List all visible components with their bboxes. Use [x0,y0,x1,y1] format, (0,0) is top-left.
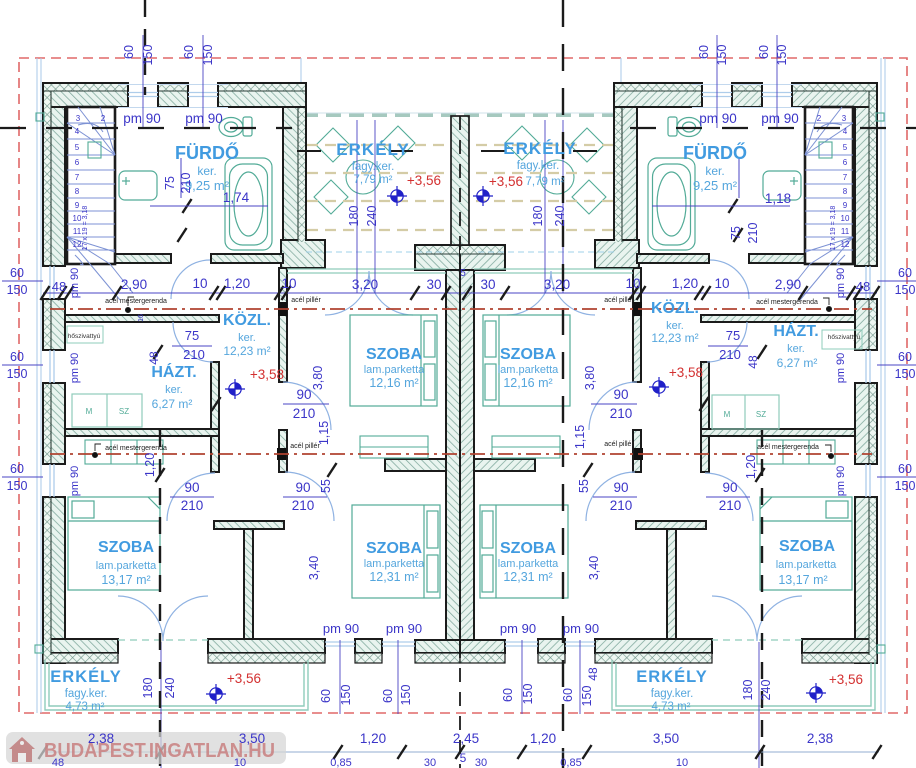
door dim vline bathroom [180,158,182,198]
balcony dim axis 180 [562,120,564,293]
svg-text:SZ: SZ [756,410,766,419]
window: bottom wall 1 [325,642,355,646]
wall: top exterior mid segment [158,83,188,107]
T-cap strip divider [416,253,460,255]
svg-text:3,40: 3,40 [307,556,321,580]
threshold dashes of lower balcony door [118,639,208,641]
svg-text:hőszivattyú: hőszivattyú [828,334,861,341]
wall: left exterior segment 2 [855,299,877,350]
svg-text:+3,56: +3,56 [227,671,261,686]
svg-text:3: 3 [76,114,81,123]
svg-text:10: 10 [281,276,296,291]
door arcs: lower balcony door [712,596,802,641]
washbasin [763,171,801,200]
door dim line bedroom SW [170,496,214,498]
svg-text:180: 180 [741,680,755,701]
section line horizontal through balconies [297,150,625,152]
svg-text:2,90: 2,90 [775,277,801,292]
svg-text:+3,56: +3,56 [829,672,863,687]
crosshatch strip left wall 1 [869,91,876,265]
svg-text:0,85: 0,85 [330,757,351,768]
svg-text:fagy.ker.: fagy.ker. [352,161,395,173]
svg-text:acél mestergerenda: acél mestergerenda [757,444,819,451]
svg-text:150: 150 [399,685,413,706]
drain pipe square top [876,113,884,121]
wall: bathroom south b [637,254,709,263]
svg-text:60: 60 [561,688,575,702]
svg-text:3,80: 3,80 [311,366,325,390]
wall: top exterior right segment to balcony [614,83,702,107]
section line vertical bottom-right [761,430,763,768]
svg-text:90: 90 [296,387,311,402]
dim tick door [153,345,162,359]
door arc: lower-left bedroom [167,473,215,521]
svg-text:60: 60 [898,350,912,364]
svg-text:4,73 m²: 4,73 m² [652,701,691,713]
svg-text:4,73 m²: 4,73 m² [66,701,105,713]
svg-text:150: 150 [775,45,789,66]
beam leader upper-left [125,297,134,313]
svg-text:90: 90 [184,480,199,495]
svg-text:fagy.ker.: fagy.ker. [65,688,108,700]
svg-text:pm 90: pm 90 [123,111,161,126]
staircase bottom winders [787,237,853,300]
window: left wall 3 [50,464,54,497]
wall: party wall top T-cap half [415,245,460,270]
svg-text:0,85: 0,85 [560,757,581,768]
wall: left exterior segment 3 [43,383,65,464]
dim line 1,18 [652,205,790,207]
crosshatch strip top wall b [159,84,187,91]
left edge dim line 1 [877,280,916,282]
svg-text:3,20: 3,20 [544,277,570,292]
svg-text:210: 210 [610,498,633,513]
window: left wall 2 [50,350,54,383]
svg-text:pm 90: pm 90 [563,621,599,636]
glass door to upper balcony [287,269,446,273]
svg-text:2: 2 [817,114,822,123]
svg-text:75: 75 [729,226,743,240]
svg-text:60: 60 [898,462,912,476]
drain pipe square bottom [35,645,43,653]
door dim line bedroom SM [283,496,327,498]
sill: bottom chunk sill [538,653,565,663]
lower balcony dim axis [758,642,760,768]
svg-text:48: 48 [586,667,600,681]
balcony chair 2 [505,126,539,160]
wall: bedroom divider lower [244,529,253,640]
svg-text:60: 60 [182,45,196,59]
wall: top exterior left segment [43,83,128,107]
wall: left exterior upper (stairwell) [855,107,877,266]
svg-text:17 x 19 = 3,18: 17 x 19 = 3,18 [82,206,89,251]
svg-text:180: 180 [531,206,545,227]
svg-text:12,16 m²: 12,16 m² [369,376,418,390]
svg-text:60: 60 [10,266,24,280]
svg-text:210: 210 [719,347,741,362]
dashed sill line upper balcony [474,251,614,253]
balcony chair 3 [314,180,348,214]
dim tick hall row [209,286,225,300]
bed lower-middle bedroom [352,505,440,598]
dim tick hall row [694,286,710,300]
window: top wall 2 [702,93,732,97]
svg-text:7: 7 [843,173,848,182]
left dwelling unit geometry [2,35,460,768]
wall: bottom exterior band [208,639,325,653]
washer/dryer boxes right [712,395,779,429]
wall: left exterior segment 3 [855,383,877,464]
svg-text:150: 150 [580,686,594,707]
survey point lower balcony left [206,684,226,704]
balcony dim axis 180 [356,120,358,293]
crosshatch strip top wall b [733,84,761,91]
svg-text:pm 90: pm 90 [69,353,81,384]
dim tick hall row [462,286,471,300]
steel pillar in bedroom wall upper [633,302,642,316]
svg-text:75: 75 [185,328,199,343]
svg-text:12,31 m²: 12,31 m² [503,570,552,584]
wall: party wall half [460,270,474,640]
dim tick hall row [410,286,419,300]
window axis line top 1 [776,35,778,128]
crosshatch strip left wall 3 [44,384,51,463]
svg-text:48: 48 [746,355,760,369]
steel pillar in bedroom wall lower [277,448,286,460]
svg-text:acél pillér: acél pillér [290,443,320,450]
svg-text:9: 9 [75,201,80,210]
svg-text:3,50: 3,50 [653,731,679,746]
window axis line bottom 2 [397,640,399,714]
upper balcony deck lines (tan dashed) [307,145,446,230]
svg-text:5: 5 [843,143,848,152]
svg-text:11: 11 [841,227,850,236]
svg-text:12,16 m²: 12,16 m² [503,376,552,390]
wall: top exterior mid segment [732,83,762,107]
svg-text:ker.: ker. [165,384,183,396]
balcony table (round) [540,160,574,194]
dashed sill line upper balcony [306,251,446,253]
wall: middle bedroom west upper [633,268,641,382]
strip divider lines [44,91,305,655]
window: bottom wall 2 [505,642,538,646]
bottom tick 522 [517,745,526,759]
svg-text:17 x 19 = 3,18: 17 x 19 = 3,18 [830,206,837,251]
door arc: lower-middle bedroom [285,472,334,521]
sill: bottom band sill [208,653,325,663]
svg-text:SZOBA: SZOBA [500,346,556,363]
svg-text:30: 30 [480,277,495,292]
door arcs: balcony glass door [507,271,595,315]
svg-text:210: 210 [719,498,742,513]
svg-text:48: 48 [52,757,64,768]
light blue plot line left [37,58,885,713]
window: top wall 1 [762,93,792,97]
wall: utility south band [65,429,219,436]
svg-text:pm 90: pm 90 [69,466,81,497]
upper balcony deck lines (tan dashed) [474,145,613,230]
wall: bottom exterior band [595,639,712,653]
sill: bottom chunk sill [355,653,382,663]
wall: left exterior lower [43,497,65,663]
svg-text:ker.: ker. [197,164,216,178]
bed lower-middle bedroom [480,505,568,598]
window: top wall 2 [188,93,218,97]
svg-text:30: 30 [475,757,487,768]
svg-text:FÜRDŐ: FÜRDŐ [683,142,747,163]
svg-text:48: 48 [52,279,66,294]
wall: balcony pier foot [281,240,325,268]
bottom tick 43 [38,745,47,759]
bottom tick 877 [872,745,881,759]
crosshatch strip left wall 4 [44,498,51,655]
beam leader lower-left [92,444,101,458]
dim tick door [755,468,764,482]
svg-text:ker.: ker. [238,332,256,344]
toilet [219,117,252,137]
left edge dim line 3 [877,476,916,478]
svg-text:lam.parketta: lam.parketta [498,364,559,376]
svg-text:240: 240 [163,678,177,699]
window: left wall 1 [866,266,870,299]
bottom tick 338 [333,745,342,759]
door arc: utility room [707,322,747,362]
sill: bottom corner sill [802,653,877,663]
svg-text:210: 210 [292,498,315,513]
svg-text:1,20: 1,20 [224,276,250,291]
svg-text:lam.parketta: lam.parketta [96,560,157,572]
wardrobe lower-left bedroom [85,440,163,464]
door dim line utility [172,345,212,347]
svg-text:48: 48 [147,351,161,365]
svg-text:acél pillér: acél pillér [291,297,321,304]
svg-text:SZOBA: SZOBA [779,538,835,555]
balcony table (round) [346,160,380,194]
heat pump box right [822,330,862,349]
svg-text:1,74: 1,74 [223,190,250,205]
svg-text:240: 240 [365,206,379,227]
crosshatch strip top wall a [44,84,127,91]
svg-text:60: 60 [381,689,395,703]
svg-text:pm 90: pm 90 [835,268,847,299]
wall: bottom exterior chunk [355,639,382,653]
svg-text:4: 4 [843,127,848,136]
svg-text:ERKÉLY: ERKÉLY [503,139,576,158]
wall: utility north band [701,315,855,322]
survey point upper balcony left [387,186,407,206]
svg-text:acél mestergerenda: acél mestergerenda [756,299,818,306]
svg-text:SZOBA: SZOBA [366,346,422,363]
svg-text:+3,56: +3,56 [489,174,523,189]
dim tick hall row [441,286,450,300]
svg-text:1,18: 1,18 [765,191,791,206]
svg-text:150: 150 [895,283,916,297]
svg-text:acél pillér: acél pillér [604,297,634,304]
door arc: upper-middle bedroom [589,382,637,430]
door arcs: lower balcony door [118,596,208,641]
svg-text:lam.parketta: lam.parketta [498,558,559,570]
svg-text:150: 150 [715,45,729,66]
window: left wall 3 [866,464,870,497]
crosshatch strip left wall 2 [44,300,51,349]
svg-text:11: 11 [73,227,82,236]
dim tick door [211,397,220,411]
dim tick hall row [57,286,73,300]
svg-text:2: 2 [101,114,106,123]
svg-text:9,25 m²: 9,25 m² [693,178,738,193]
wardrobe upper-middle bedroom [492,436,560,458]
beam leader lower-right [825,445,834,459]
svg-text:90: 90 [295,480,310,495]
crosshatch strip balcony wall [298,108,305,242]
svg-text:210: 210 [610,406,633,421]
svg-text:240: 240 [553,206,567,227]
svg-text:12: 12 [841,240,850,249]
wall: middle bedroom west upper [279,268,287,382]
watermark budapest.ingatlan.hu [6,732,286,764]
door dim vline bathroom [738,158,740,198]
window axis line bottom 2 [521,640,523,714]
svg-text:10: 10 [841,214,850,223]
svg-text:+3,58: +3,58 [669,365,703,380]
svg-text:150: 150 [339,685,353,706]
svg-text:150: 150 [201,45,215,66]
svg-text:ker.: ker. [705,164,724,178]
door arc: bathroom [710,260,749,299]
washer/dryer boxes left [72,394,142,427]
wall: balcony pier foot [595,240,639,268]
svg-text:30: 30 [424,757,436,768]
svg-text:5: 5 [460,751,467,765]
svg-text:2,38: 2,38 [88,731,114,746]
svg-text:+3,58: +3,58 [250,367,284,382]
wall: middle bedroom west post [633,430,641,472]
bottom tick 460 [455,745,464,759]
svg-text:1,15: 1,15 [317,421,331,445]
glass door to upper balcony [474,269,633,273]
svg-text:acél mestergerenda: acél mestergerenda [105,298,167,305]
bottom tick 160 [155,745,164,759]
svg-text:8: 8 [75,187,80,196]
wall: middle bedroom south band [385,459,446,471]
svg-text:90: 90 [613,480,628,495]
svg-text:6,27 m²: 6,27 m² [777,356,818,370]
dim tick door [728,199,737,213]
dim tick hall row [274,286,290,300]
bed lower-left bedroom [760,497,852,590]
drain pipe square bottom [877,645,885,653]
wall: bathroom south a [749,254,805,263]
survey point upper balcony right [473,186,493,206]
threshold dashes of lower balcony door [712,639,802,641]
svg-text:210: 210 [179,173,193,194]
door arc: bathroom [171,260,210,299]
wall: top exterior left segment [792,83,877,107]
left edge dim line 1 [2,280,43,282]
wall: utility north band [65,315,219,322]
svg-text:3,20: 3,20 [352,277,378,292]
bottom tick 587 [582,745,591,759]
wall: bottom exterior corner chunk [802,639,877,653]
svg-text:7,79 m²: 7,79 m² [354,174,393,186]
svg-text:10: 10 [676,757,688,768]
svg-text:1,20: 1,20 [360,731,386,746]
crosshatch strip party wall T-cap [416,246,460,254]
staircase treads [805,123,853,250]
railing dashed line top of balconies [303,113,619,117]
svg-text:4: 4 [75,127,80,136]
heat pump box left [67,326,103,343]
door arc: upper-middle bedroom [283,382,331,430]
svg-text:12: 12 [73,240,82,249]
svg-text:150: 150 [7,367,28,381]
svg-text:240: 240 [759,680,773,701]
wardrobe lower-left bedroom [757,440,835,464]
crosshatch strip top wall a [793,84,876,91]
survey point hall left [225,379,245,399]
window axis line bottom 1 [339,640,341,714]
balcony dim axis 240 [374,120,376,293]
svg-text:210: 210 [181,498,204,513]
dim tick hall row [629,286,645,300]
stairwell niche [819,142,832,158]
bathtub [225,158,272,250]
T-cap strip divider [460,253,504,255]
sill: bottom band sill [595,653,712,663]
svg-text:lam.parketta: lam.parketta [364,364,425,376]
door dim line bedroom UM [283,403,329,405]
lower balcony outline [612,660,875,710]
wall: bedroom divider lower [667,529,676,640]
window axis line top 2 [716,35,718,128]
svg-text:90: 90 [613,387,628,402]
stairwell niche [88,142,101,158]
wall: bathroom/balcony divider [283,107,306,243]
svg-text:pm 90: pm 90 [761,111,799,126]
party wall top post [451,116,469,245]
svg-text:6: 6 [75,158,80,167]
survey point hall right [649,377,669,397]
bed lower-left bedroom [68,497,160,590]
svg-text:10: 10 [625,276,640,291]
svg-text:+3,56: +3,56 [407,173,441,188]
crosshatch strip left wall 4 [869,498,876,655]
svg-text:pm 90: pm 90 [185,111,223,126]
svg-text:6,27 m²: 6,27 m² [152,397,193,411]
window: top wall 1 [128,93,158,97]
svg-text:150: 150 [895,367,916,381]
dim tick hall row [500,286,509,300]
svg-text:150: 150 [7,283,28,297]
svg-text:5: 5 [460,268,466,279]
svg-text:HÁZT.: HÁZT. [773,321,818,340]
crosshatch strip left wall 3 [869,384,876,463]
staircase bottom winders [67,237,133,300]
bottom dimension line [43,751,879,753]
balcony dim axis 240 [544,120,546,293]
wall: party wall bottom T-cap half [460,640,505,653]
svg-text:pm 90: pm 90 [835,353,847,384]
steel beam line lower [50,453,872,455]
steel pillar in bedroom wall lower [634,448,643,460]
door dim line bedroom SW [706,496,750,498]
svg-text:KÖZL.: KÖZL. [223,310,271,329]
wall: left exterior segment 2 [43,299,65,350]
door dim line bedroom UM [591,403,637,405]
window axis line top 1 [142,35,144,128]
dim tick door [177,228,186,242]
construction line over top windows [692,84,802,86]
